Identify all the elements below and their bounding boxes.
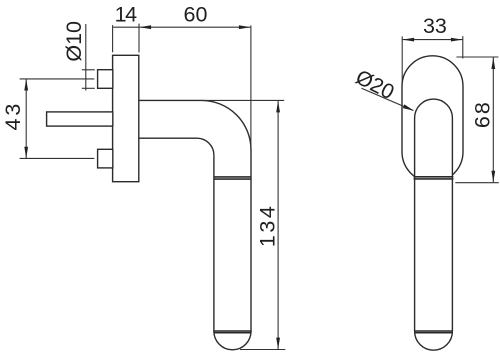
svg-text:33: 33 [423, 14, 447, 38]
dim 43 extension line top [20, 78, 95, 80]
dim 43 bottom arrow [24, 147, 28, 159]
dim 43 top arrow [24, 79, 28, 91]
handle neck outer edge with bend arc [139, 100, 251, 149]
dim D20 leader arrow [403, 104, 414, 110]
dim D10 extension line bottom [82, 87, 95, 89]
grip bottom cap [214, 331, 251, 350]
grip top collar [214, 176, 251, 178]
dim 68 top arrow [491, 58, 495, 70]
dim 33 right arrow [451, 38, 463, 42]
grip left edge [213, 155, 215, 332]
dim 43 line [25, 79, 27, 158]
dim 68 extension line top [456, 56, 498, 58]
dim D10 extension line top [82, 69, 95, 71]
dim 134 extension line bottom [240, 349, 285, 351]
dim D10 line [85, 24, 87, 91]
dim 60 left arrow [140, 25, 152, 29]
dim 68 extension line bottom [455, 182, 499, 184]
dim 134 extension line top [202, 99, 285, 101]
grip bottom collar front [415, 330, 453, 332]
upper screw boss [98, 70, 113, 89]
dim D20 leader line [362, 88, 414, 110]
dim 14 line [113, 26, 139, 28]
svg-text:60: 60 [184, 3, 208, 27]
lower screw boss [98, 149, 113, 168]
handle neck inner edge with bend arc [139, 138, 214, 155]
dim 14 extension line right [138, 24, 140, 53]
head grip joint collar front [414, 176, 454, 178]
dim 68 bottom arrow [491, 171, 495, 183]
grip bottom collar [214, 330, 251, 332]
dim 134 bottom arrow [276, 338, 280, 350]
dim 33 extension line left [401, 36, 403, 84]
dim 60 extension line right [250, 25, 252, 150]
dim 43 extension line bottom [20, 157, 95, 159]
svg-text:14: 14 [115, 3, 137, 27]
grip right edge [250, 150, 252, 332]
rose plate [113, 55, 139, 181]
svg-text:43: 43 [1, 101, 25, 131]
handle neck and grip tube front [415, 99, 453, 350]
dim 14 extension line left [112, 25, 114, 52]
dim 33 line [403, 39, 463, 41]
svg-text:134: 134 [255, 204, 279, 247]
dim 60 right arrow [239, 25, 251, 29]
dim 60 line [140, 26, 251, 28]
dim 134 top arrow [276, 101, 280, 113]
handle head outer stadium [402, 56, 463, 182]
spindle [47, 112, 113, 126]
dim 134 line [277, 101, 279, 349]
dim 33 extension line right [462, 36, 464, 58]
svg-text:Ø10: Ø10 [62, 21, 86, 62]
svg-text:68: 68 [470, 100, 494, 128]
dim 33 left arrow [403, 38, 415, 42]
dim 68 line [492, 58, 494, 183]
